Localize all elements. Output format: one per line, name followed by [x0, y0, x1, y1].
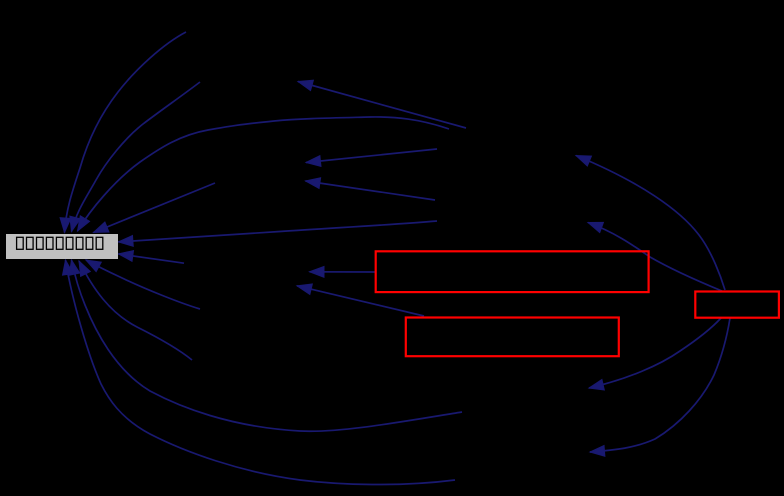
wire edge nCD to M: [94, 183, 216, 233]
wire edge nT to M (top-left long arc): [65, 32, 187, 233]
wire edge R3 to P1: [576, 156, 725, 291]
node M (current function, gray): [6, 234, 118, 259]
wire edge nE2 to M (right side): [118, 254, 184, 263]
node R2 (red truncated box): [406, 318, 619, 357]
node R1 (red truncated box): [376, 251, 649, 292]
node R3 (red truncated box right): [695, 292, 779, 318]
wire edge P23 to nCD: [306, 181, 436, 200]
wire edge nB to M: [72, 82, 201, 232]
wire edge R3 to Q1: [589, 318, 721, 388]
wire edge R3 to Q2: [590, 318, 730, 452]
wire edge nA to M (long flat curve): [78, 117, 450, 231]
wire edge R3 to P23: [588, 223, 722, 292]
wire edge nF2 to M (bottom): [86, 260, 200, 309]
wire edge Q2 to M (biggest arc): [66, 260, 456, 485]
wire edge nA to nB: [298, 82, 466, 129]
wire edge P1 to nCD: [306, 149, 437, 163]
wire edge P23 to M (right side long): [118, 221, 437, 242]
wire edge nL to M (bottom): [79, 261, 192, 360]
wire edge Q1 to M (big arc): [72, 260, 463, 431]
wire edge R2 to nF2: [297, 286, 424, 316]
wire edge R1 to nE2: [310, 271, 377, 273]
